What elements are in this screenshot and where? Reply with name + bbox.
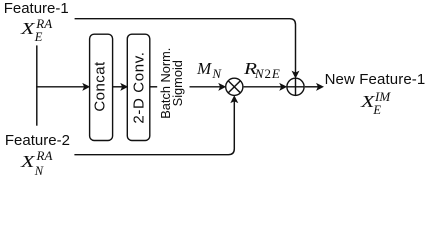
label Concat (rotated)	[93, 31, 108, 141]
wire: arrow Concat to 2-D Conv	[113, 86, 123, 88]
label R_N2E	[244, 60, 254, 77]
label M_N	[197, 60, 211, 77]
box Concat	[90, 34, 113, 140]
wire: arrow into Concat	[36, 86, 84, 88]
node X_E^RA (input 1)	[21, 20, 31, 37]
wire: stub from 2-D Conv	[150, 86, 157, 88]
label Feature-1	[4, 1, 69, 16]
node X_E^IM (output)	[361, 93, 371, 110]
box 2-D Conv.	[127, 34, 150, 140]
wire: top bypass from Feature-1 to adder	[75, 19, 296, 73]
label New Feature-1	[325, 72, 426, 87]
wire: bottom bypass from Feature-2 to multiplier	[74, 101, 234, 155]
wire: output arrow of adder	[305, 86, 319, 88]
wire: arrow into multiplier	[190, 86, 221, 88]
wire: arrow multiplier to adder	[244, 86, 282, 88]
arrowhead into adder top	[293, 72, 299, 78]
label Batch Norm. / Sigmoid (rotated 2-line)	[160, 28, 184, 138]
arrowhead into multiplier bottom	[231, 96, 237, 102]
node X_N^RA (input 2)	[21, 153, 31, 170]
adder circle (+)	[287, 78, 304, 95]
label Feature-2	[5, 133, 70, 148]
multiplier circle (x)	[226, 78, 243, 95]
wire: left input vertical merge line	[36, 45, 38, 125]
label 2-D Conv. (rotated)	[131, 33, 146, 143]
